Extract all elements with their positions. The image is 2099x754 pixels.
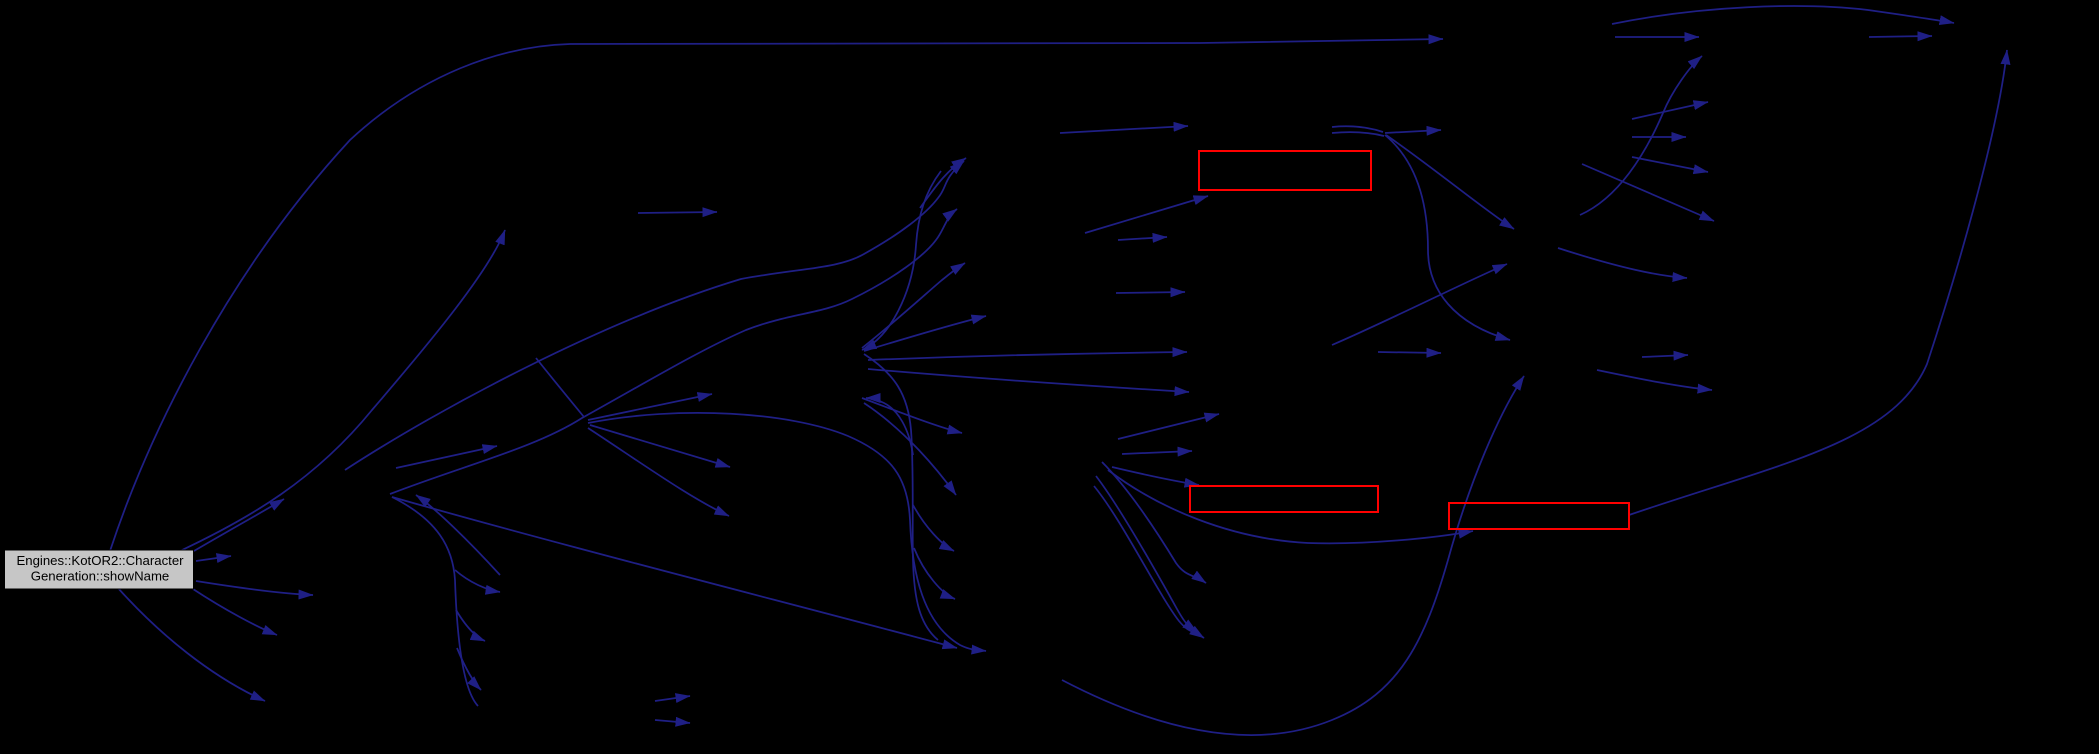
wire: short arrow to D-703 [655,696,690,701]
wire: top-right arc TOP1 to TOP2 [1612,6,1954,24]
wire: bundle branch to C-642 [456,610,485,641]
wire: arc from node B1 up to node C0 [180,230,505,551]
wire: E3 node to F0 [1378,352,1441,353]
wire: long top edge from grey node to top-center target [110,39,1443,551]
wire: knot down into lower spine vertical [864,354,938,640]
wire: second arrow into D1 (overlapping) [920,158,966,208]
wire: E0 fan to F-top [1385,130,1441,133]
wire: sweep under red box R2 into red box R3 [1108,470,1473,543]
red box R3 [1449,503,1629,529]
wire: hub2 bundle vertical strand [392,497,478,706]
wire: red box R3 arc up to top-right target [1629,50,2007,515]
svg-text:Engines::KotOR2::Character: Engines::KotOR2::Character [16,553,184,568]
wire: E0 fan entry strand 2 [1332,132,1384,136]
wire: knot to E3 (long straight) [868,352,1187,360]
red box R1 [1199,151,1371,190]
wire: crossing line to G-222 [1582,164,1714,221]
wire: line into red box R1 bottom-left [1085,196,1208,233]
svg-text:Generation::showName: Generation::showName [31,569,170,584]
wire: lower spine to D-598 [914,548,955,599]
wire: F2 to G5 [1597,370,1712,390]
wire: fan to E-451 [1122,451,1192,454]
wire: lower spine to D-551 [913,505,954,551]
wire: grey node to node B4 [193,589,277,635]
wire: giant bottom back edge to F2 [1062,376,1524,735]
wire: arrow to E-292 [1116,292,1185,293]
red box R2 [1190,486,1378,512]
wire: F1 S-curve up to G-53 [1580,56,1702,215]
wire: S-curve hub1 to D1 (upper spine strand 1) [345,161,964,470]
wire: knot to D4 [864,316,986,351]
wire: back edge down upper spine into knot node [862,171,941,350]
wire: line to E0 [1060,126,1188,133]
wire: G-top horizontal arrow [1869,36,1932,37]
wire: bundle branch to C-694 [457,648,481,690]
wire: lower spine to D6 [864,403,956,495]
wire: knot to E4 (long straight) [868,369,1189,392]
wire: E3 node to F1 lower [1332,264,1507,345]
node: Engines::KotOR2::CharacterGeneration::showName (grey) [5,550,194,589]
wire: fan S-curve to E-636b [1094,486,1204,638]
wire: short edge down into node P [536,358,584,417]
wire: E0 fan diagonal to F1 [1386,135,1514,229]
wire: TOP1 horizontal arrow [1615,36,1699,38]
wire: F2 to G4 [1642,355,1688,357]
wire: fan S-curve to E-633 [1096,476,1197,632]
wire: grey node to node B2 [196,556,231,561]
wire: hub2 long line to D7 [392,497,957,648]
wire: F-top to G-137 [1632,136,1686,138]
wire: hub1 to C1 [396,446,497,468]
wire: grey node to node B5 [118,588,265,701]
wire: short arrow to E-237 [1118,237,1167,240]
wire: F-top to G-173 [1632,157,1708,172]
wire: short arrow to D-732 [655,720,690,723]
wire: bundle branch to C-592 [455,570,500,592]
wire: E0 fan entry strand 1 [1332,126,1383,132]
wire: back edge into right side of node D0 [866,398,913,455]
wire: F-top to G-101 [1632,102,1708,119]
wire: F1 to G3 [1558,248,1687,278]
wire: arc from node P into lower spine, to D8 [588,413,986,651]
wire: horizontal arrow into D-212 [638,212,717,213]
wire: arrow into red box R2 top-left [1112,467,1199,485]
wire: S-curve hub2 to D2 (upper spine strand 2) [390,209,957,494]
wire: grey node to node B1 [194,499,284,551]
wire: E0 fan S-curve down to F2 [1385,135,1510,340]
wire: lower spine to D5 [862,398,962,433]
wire: grey node to node B3 [196,581,313,595]
wire: node P fan to C-516 [588,428,729,516]
wire: node P fan up to D0 left [588,394,712,420]
wire: node P fan to C-467 [590,425,730,467]
wire: knot to D3 [862,263,965,348]
wire: fan S-curve to E-585 [1102,462,1206,583]
wire: fan to E-415 [1118,414,1219,439]
wire: back edge into hub2 from lower right [416,495,500,575]
